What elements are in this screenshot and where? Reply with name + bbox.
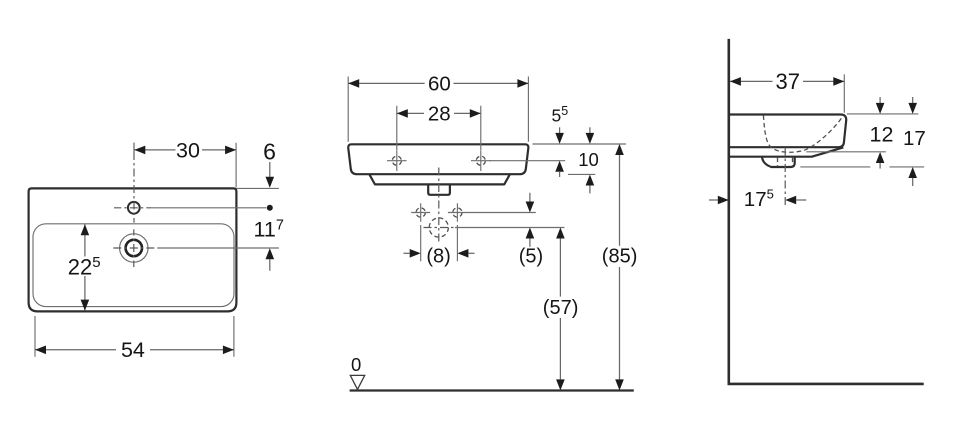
faucet hole bbox=[128, 202, 140, 214]
bowl hidden outline bbox=[763, 115, 842, 152]
svg-text:12: 12 bbox=[870, 122, 894, 146]
dimension 11_7: arrow tail bbox=[269, 259, 271, 271]
dimension 37: extension line bbox=[843, 74, 845, 113]
dimension 37: right arrow bbox=[833, 77, 844, 86]
drain axis centerline bbox=[438, 168, 440, 244]
basin bottom edge extension right bbox=[568, 173, 595, 175]
dimension 17_5: right arrow bbox=[785, 196, 796, 205]
top edge extension line right bbox=[847, 113, 919, 115]
dimension 22_5: down arrow bbox=[81, 300, 90, 311]
dimension (57): down arrow bbox=[556, 379, 565, 390]
dimension 10: lower up arrow bbox=[586, 175, 595, 186]
dimension 30: left arrow bbox=[134, 146, 145, 155]
dimension 37: dimension line bbox=[730, 80, 844, 82]
dimension 60: dimension line bbox=[348, 82, 528, 84]
dimension 54: left arrow bbox=[35, 346, 46, 355]
dimension 30: right extension line bbox=[235, 143, 237, 188]
dimension 11_7: up arrow bbox=[266, 248, 275, 259]
dimension (57): line upper bbox=[559, 239, 561, 297]
svg-text:17: 17 bbox=[903, 127, 926, 150]
mounting hole line extension right bbox=[489, 160, 565, 162]
basin bowl inner outline bbox=[33, 224, 234, 307]
svg-text:54: 54 bbox=[121, 338, 145, 362]
svg-text:30: 30 bbox=[176, 138, 200, 162]
dimension (57): up arrow bbox=[556, 228, 565, 239]
right mounting hole bbox=[476, 156, 485, 165]
basin recess underside bbox=[730, 147, 843, 156]
drain fitting box bbox=[428, 184, 450, 194]
basin side outline bbox=[730, 115, 846, 148]
dimension (85): line upper bbox=[619, 155, 621, 246]
svg-text:28: 28 bbox=[428, 103, 451, 126]
dimension 30: dimension line bbox=[134, 149, 236, 151]
dimension (57): line lower bbox=[559, 318, 561, 379]
datum 0: triangle bbox=[350, 375, 364, 389]
faucet hole centerline horizontal bbox=[114, 207, 151, 209]
dimension (8): extension lines bbox=[421, 225, 458, 261]
faucet reference line to dot bbox=[151, 207, 266, 209]
dimension 17: lower up arrow bbox=[908, 167, 917, 178]
drain pipe hidden circle bbox=[429, 218, 448, 237]
drain reference line bbox=[455, 227, 564, 229]
svg-text:(57): (57) bbox=[543, 297, 579, 319]
drain reference line bbox=[158, 247, 279, 249]
trap cover bbox=[762, 157, 795, 167]
basin body front outline bbox=[348, 144, 528, 174]
dimension 17_5: left arrow bbox=[709, 199, 718, 201]
drain inner circle bbox=[126, 240, 142, 256]
dimension 6: down arrow bbox=[266, 177, 275, 188]
dimension 30: right arrow bbox=[225, 146, 236, 155]
dimension 5_5: upper down arrow bbox=[559, 127, 561, 133]
drain centerline vertical bbox=[133, 229, 135, 267]
drain centerline horizontal bbox=[111, 247, 158, 249]
svg-text:0: 0 bbox=[351, 354, 361, 375]
dimension (85): down arrow bbox=[615, 379, 624, 390]
svg-text:60: 60 bbox=[428, 73, 451, 96]
left supply connection bbox=[416, 208, 425, 217]
drain circle centerline horizontal bbox=[424, 227, 454, 229]
dimension 12: upper down arrow bbox=[879, 97, 881, 103]
dimension 28: right arrow bbox=[470, 109, 481, 118]
dimension (85): line lower bbox=[619, 267, 621, 379]
dimension 60: left arrow bbox=[348, 79, 359, 88]
dimension 28: dimension line bbox=[397, 112, 481, 114]
faucet hole centerline vertical bbox=[133, 143, 135, 152]
svg-text:(8): (8) bbox=[426, 246, 450, 268]
svg-text:10: 10 bbox=[578, 149, 599, 170]
top edge extension line bbox=[236, 187, 279, 189]
dimension 17: upper down arrow bbox=[912, 97, 914, 103]
dimension 54: extension lines bbox=[35, 316, 234, 357]
dimension (5): lower up arrow bbox=[526, 228, 535, 239]
dimension 54: dimension line bbox=[35, 349, 234, 351]
left mounting hole bbox=[392, 156, 401, 165]
floor line right view bbox=[728, 383, 924, 386]
hidden outlet pipe bbox=[778, 158, 793, 167]
dimension 12: lower up arrow bbox=[876, 152, 885, 163]
dimension 11_7: dot at faucet line bbox=[267, 205, 273, 211]
svg-text:6: 6 bbox=[263, 139, 276, 165]
dimension (85): up arrow bbox=[615, 144, 624, 155]
drain axis centerline bbox=[784, 148, 786, 207]
dimension (5): upper down arrow bbox=[529, 193, 531, 202]
basin apron underside bbox=[369, 174, 510, 184]
dimension 60: extension lines bbox=[348, 77, 528, 142]
dimension 54: right arrow bbox=[223, 346, 234, 355]
svg-text:(85): (85) bbox=[602, 246, 638, 268]
floor line center view bbox=[350, 389, 634, 391]
low extension line (17 ref) bbox=[800, 166, 924, 168]
dimension 28: extension lines bbox=[397, 106, 481, 150]
basin outer outline (top view) bbox=[29, 188, 237, 311]
dimension 60: right arrow bbox=[517, 79, 528, 88]
dimension 6: arrow tail bbox=[269, 162, 271, 177]
dimension 22_5: dimension line bbox=[84, 224, 86, 310]
right supply connection bbox=[453, 208, 462, 217]
dimension 28: left arrow bbox=[397, 109, 408, 118]
mid extension line (12 ref) bbox=[806, 151, 886, 153]
top edge extension line right bbox=[533, 143, 626, 145]
svg-text:37: 37 bbox=[775, 69, 799, 94]
dimension 37: left arrow bbox=[730, 77, 741, 86]
dimension 10: upper down arrow bbox=[589, 127, 591, 133]
dimension 5_5: lower up arrow bbox=[555, 161, 564, 172]
dimension (8): right arrow bbox=[457, 249, 468, 258]
supply reference line bbox=[467, 212, 536, 214]
dimension (8): left arrow bbox=[404, 252, 410, 254]
wall line bbox=[727, 39, 730, 385]
svg-text:(5): (5) bbox=[519, 246, 543, 268]
dimension 22_5: up arrow bbox=[81, 224, 90, 235]
drain outer circle bbox=[120, 234, 148, 262]
